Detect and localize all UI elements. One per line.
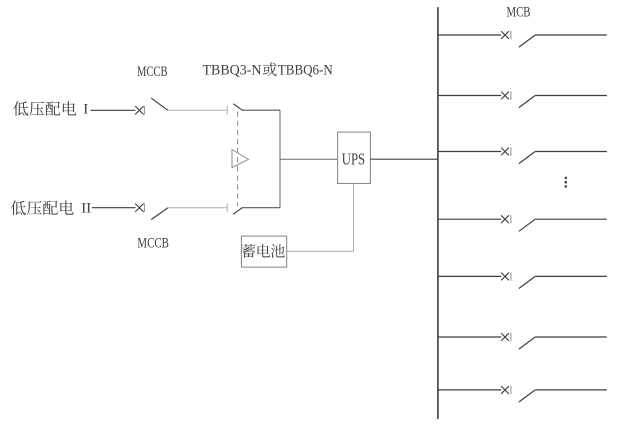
svg-text:TBBQ6-N: TBBQ6-N [278,63,333,79]
svg-text:TBBQ3-N: TBBQ3-N [203,63,262,79]
breaker MCB3 blade [519,152,535,164]
breaker MCCB2 contact cross [135,204,143,212]
breaker MCB5 blade [519,276,535,288]
wire MCCB2 to ATS input 2 [168,207,227,209]
svg-text:MCCB: MCCB [137,235,169,251]
breaker MCB4 fixed contact tick [510,215,512,223]
wire MCB5 to load [535,275,607,277]
label 低压配电 I (source I) [13,101,88,117]
wire UPS to battery vertical segment [353,183,355,251]
wire UPS output to bus [370,158,438,160]
breaker MCB1 fixed contact tick [510,31,512,39]
wire MCB3 to load [535,151,607,153]
breaker MCB6 blade [519,337,535,349]
breaker MCB2 fixed contact tick [510,91,512,99]
breaker MCB6 contact cross [501,333,509,341]
wire bus to MCB6 [438,336,501,338]
distribution bus bar [437,7,439,419]
wire bus to MCB4 [438,218,501,220]
breaker MCB7 contact cross [501,386,509,394]
breaker MCCB2 fixed contact tick [143,203,145,212]
wire ATS U1 output to UPS [280,158,338,160]
wire MCCB1 to ATS input 1 [168,109,227,111]
label TBBQ3-N或TBBQ6-N (ATS type) [203,62,333,78]
ATS U1 box bottom edge [242,207,280,209]
ATS U1 inverter triangle [232,150,249,168]
breaker MCB5 fixed contact tick [510,272,512,280]
wire MCB2 to load [535,95,607,97]
svg-text:II: II [81,201,91,217]
ATS U1 transfer dashed bar [237,112,239,207]
svg-text:MCCB: MCCB [137,64,168,80]
breaker MCB4 blade [519,219,535,231]
breaker MCB1 blade [519,35,535,47]
wire bus to MCB7 [438,389,501,391]
wire bus to MCB1 [438,34,501,36]
label 低压配电 II (source II) [11,200,91,216]
breaker MCB7 blade [519,390,535,402]
breaker MCB2 blade [519,96,535,108]
breaker MCB5 contact cross [501,273,509,281]
breaker MCB4 contact cross [501,215,509,223]
ATS input 1 contact tick [226,106,228,115]
wire MCB7 to load [535,389,607,391]
wire battery horizontal segment [287,250,354,252]
ATS input 2 contact tick [226,203,228,212]
ATS U1 bottom contact blade [233,208,242,215]
breaker MCB1 contact cross [501,31,509,39]
wire bus to MCB3 [438,151,501,153]
wire bus to MCB5 [438,275,501,277]
ATS U1 box top edge [242,109,280,111]
breaker MCB2 contact cross [501,92,509,100]
ATS U1 box right edge [279,110,281,208]
label 蓄电池 (battery) [242,244,285,258]
breaker MCB3 contact cross [501,148,509,156]
ellipsis more branches [565,177,568,188]
svg-text:UPS: UPS [342,149,365,168]
battery box [241,236,286,267]
breaker MCCB1 blade [151,98,168,110]
wire MCB4 to load [535,218,607,220]
breaker MCCB1 contact cross [135,106,143,114]
wire MCB1 to load [535,34,607,36]
wire bus to MCB2 [438,95,501,97]
ATS U1 top contact blade [233,104,242,111]
breaker MCB6 fixed contact tick [510,333,512,341]
breaker MCCB2 blade [151,208,168,220]
UPS unit box [338,132,371,183]
svg-text:MCB: MCB [507,4,531,20]
wire from source II to MCCB2 [92,207,136,209]
breaker MCB3 fixed contact tick [510,147,512,155]
breaker MCB7 fixed contact tick [510,386,512,394]
svg-text:I: I [83,101,88,117]
breaker MCCB1 fixed contact tick [143,106,145,115]
wire MCB6 to load [535,336,607,338]
wire from source I to MCCB1 [91,109,136,111]
